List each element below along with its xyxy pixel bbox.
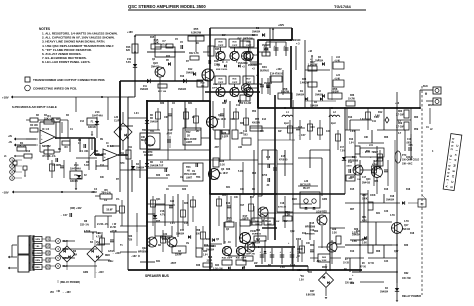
- svg-text:R42 15FP 2W: R42 15FP 2W: [241, 253, 256, 256]
- svg-text:R44 .15FP: R44 .15FP: [222, 257, 233, 260]
- svg-text:R26: R26: [184, 203, 189, 205]
- svg-text:4700: 4700: [262, 174, 268, 177]
- svg-text:.005: .005: [408, 145, 413, 147]
- svg-text:Q19: Q19: [290, 231, 295, 233]
- svg-text:MUR: MUR: [262, 221, 268, 223]
- svg-text:R12: R12: [188, 68, 193, 71]
- svg-text:+: +: [41, 137, 43, 141]
- svg-text:820: 820: [126, 49, 131, 52]
- svg-text:R30: R30: [160, 103, 165, 105]
- svg-text:C11: C11: [372, 121, 377, 123]
- svg-text:8. LE1–LE6 FRONT PANEL LED’S.: 8. LE1–LE6 FRONT PANEL LED’S.: [42, 60, 91, 64]
- svg-text:100K: 100K: [322, 260, 327, 262]
- svg-text:+18V: +18V: [127, 31, 133, 34]
- svg-text:10·2W: 10·2W: [348, 99, 356, 101]
- svg-text:D18: D18: [390, 196, 395, 198]
- svg-text:2K: 2K: [196, 131, 199, 133]
- svg-text:R25: R25: [156, 221, 161, 223]
- svg-text:1.04: 1.04: [134, 112, 139, 115]
- svg-text:1N4934: 1N4934: [315, 60, 324, 63]
- svg-text:4K: 4K: [187, 170, 190, 173]
- svg-text:COLD: COLD: [406, 157, 413, 159]
- svg-text:× 3: × 3: [296, 43, 300, 46]
- svg-text:.15FP: .15FP: [170, 263, 177, 265]
- svg-text:.003: .003: [310, 127, 315, 129]
- svg-text:C14: C14: [184, 222, 189, 225]
- svg-text:R33: R33: [222, 103, 227, 105]
- svg-text:TRANSFORMER AND OUTPUT CONNECT: TRANSFORMER AND OUTPUT CONNECTOR PINS: [33, 78, 105, 82]
- svg-text:2N4410: 2N4410: [362, 182, 371, 185]
- svg-text:1%: 1%: [96, 245, 99, 247]
- svg-text:10K∼90C: 10K∼90C: [402, 164, 413, 166]
- svg-text:Q→16: Q→16: [224, 242, 231, 244]
- svg-text:R17: R17: [240, 205, 245, 207]
- svg-text:VIO: VIO: [50, 292, 54, 294]
- svg-text:10/2W: 10/2W: [331, 89, 339, 93]
- svg-text:47-50: 47-50: [360, 266, 367, 269]
- svg-text:6.2K/5W: 6.2K/5W: [191, 31, 202, 35]
- svg-text:R20: R20: [182, 189, 187, 191]
- svg-text:R31: R31: [188, 103, 193, 105]
- svg-text:21.5K: 21.5K: [110, 227, 116, 229]
- svg-text:R60: R60: [398, 111, 403, 113]
- svg-text:1N4934: 1N4934: [310, 105, 319, 108]
- svg-text:.0018: .0018: [91, 192, 97, 194]
- svg-text:D18: D18: [406, 189, 411, 191]
- svg-text:2SA6609: 2SA6609: [248, 64, 258, 67]
- svg-text:D13: D13: [350, 251, 355, 253]
- svg-text:2.4K/2W: 2.4K/2W: [300, 82, 310, 85]
- svg-text:R27: R27: [310, 290, 315, 293]
- svg-text:6-PIN MODULAR INPUT CABLE: 6-PIN MODULAR INPUT CABLE: [12, 105, 57, 109]
- svg-text:1N4934: 1N4934: [380, 291, 389, 294]
- svg-text:10K-1%: 10K-1%: [17, 143, 27, 147]
- svg-text:1.04: 1.04: [350, 130, 355, 133]
- svg-text:3.7-2W: 3.7-2W: [396, 127, 404, 129]
- svg-text:450/3W: 450/3W: [252, 122, 261, 125]
- svg-text:8.8K/1W: 8.8K/1W: [306, 295, 316, 297]
- svg-text:100K: 100K: [362, 199, 368, 201]
- svg-text:R49: R49: [264, 48, 269, 51]
- svg-text:−82V: −82V: [296, 269, 302, 272]
- svg-text:R63: R63: [256, 230, 261, 232]
- svg-text:5.6/2W: 5.6/2W: [281, 89, 290, 93]
- svg-text:LIM: LIM: [238, 147, 242, 149]
- svg-text:PILOT: PILOT: [303, 188, 310, 190]
- svg-text:R32: R32: [404, 272, 409, 275]
- svg-text:R48: R48: [302, 78, 307, 81]
- svg-text:4.7UF: 4.7UF: [157, 165, 164, 168]
- svg-text:C20: C20: [170, 201, 175, 203]
- svg-text:CONNECTING WIRES ON PCB.: CONNECTING WIRES ON PCB.: [33, 87, 77, 91]
- svg-text:R21: R21: [362, 216, 367, 219]
- svg-text:R36: R36: [350, 95, 355, 97]
- svg-text:D14: D14: [302, 232, 307, 235]
- svg-text:LIMIT: LIMIT: [186, 142, 193, 144]
- svg-text:MPS8599: MPS8599: [348, 161, 359, 163]
- svg-text:R55: R55: [194, 27, 199, 31]
- svg-text:R24: R24: [215, 264, 220, 267]
- svg-text:2μH: 2μH: [331, 122, 336, 125]
- svg-text:+IN: +IN: [8, 135, 12, 138]
- svg-text:TG/17/84: TG/17/84: [334, 4, 351, 9]
- svg-text:← L01: ← L01: [366, 145, 374, 147]
- svg-text:E14: E14: [262, 118, 267, 121]
- svg-text:+82V: +82V: [278, 23, 284, 27]
- svg-text:Q20: Q20: [366, 179, 371, 181]
- svg-text:R66: R66: [384, 137, 389, 139]
- svg-text:R57 100: R57 100: [158, 91, 167, 93]
- svg-text:R20: R20: [362, 194, 367, 197]
- svg-text:R28: R28: [226, 169, 231, 171]
- svg-text:DD1: DD1: [262, 66, 267, 69]
- svg-text:R52: R52: [255, 119, 260, 121]
- svg-text:IC 1:2: IC 1:2: [42, 127, 50, 131]
- svg-text:R22 4.7K: R22 4.7K: [189, 52, 199, 55]
- svg-text:1.04/2W: 1.04/2W: [308, 62, 318, 66]
- svg-text:1.5A: 1.5A: [280, 266, 285, 269]
- svg-text:R23: R23: [128, 236, 133, 238]
- svg-text:R68: R68: [376, 251, 381, 253]
- svg-text:D10: D10: [226, 203, 231, 205]
- svg-text:GRN: GRN: [322, 199, 327, 201]
- svg-text:1N4934: 1N4934: [178, 88, 187, 91]
- svg-text:R13: R13: [348, 117, 353, 119]
- svg-text:CLIP: CLIP: [114, 120, 120, 123]
- svg-text:21.5K−1%: 21.5K−1%: [97, 223, 109, 226]
- svg-text:C23: C23: [384, 211, 389, 213]
- svg-text:QSC STEREO AMPLIFIER MODEL 350: QSC STEREO AMPLIFIER MODEL 3500: [128, 4, 206, 9]
- svg-text:1N4934: 1N4934: [150, 121, 159, 124]
- svg-text:3.3K: 3.3K: [332, 233, 337, 235]
- svg-text:1N: 1N: [186, 243, 189, 245]
- svg-text:R10: R10: [26, 151, 31, 153]
- svg-text:RED: RED: [105, 255, 110, 257]
- svg-text:220PF: 220PF: [175, 255, 182, 257]
- svg-text:R23: R23: [156, 175, 161, 177]
- svg-text:R59: R59: [414, 129, 419, 131]
- svg-text:3300: 3300: [296, 239, 302, 241]
- svg-text:WHT: WHT: [428, 104, 434, 107]
- svg-text:8599: 8599: [162, 239, 168, 241]
- svg-text:NOTES: NOTES: [39, 27, 50, 31]
- svg-text:.15FP: .15FP: [218, 45, 224, 47]
- svg-text:SPEAKER BUS: SPEAKER BUS: [145, 274, 170, 278]
- svg-text:330/1B: 330/1B: [88, 126, 96, 129]
- svg-text:R65: R65: [374, 181, 379, 183]
- svg-text:R52: R52: [252, 111, 257, 113]
- svg-text:RED: RED: [35, 267, 40, 269]
- svg-text:Q17: Q17: [394, 251, 399, 253]
- svg-text:1N4934: 1N4934: [252, 31, 261, 34]
- svg-text:D15: D15: [350, 189, 355, 191]
- svg-text:R11: R11: [128, 147, 133, 149]
- svg-text:R2 10K: R2 10K: [30, 125, 38, 127]
- svg-text:−IN: −IN: [8, 141, 12, 144]
- svg-text:BIAS: BIAS: [141, 139, 147, 142]
- svg-text:1N4934: 1N4934: [296, 94, 305, 97]
- svg-text:YEL: YEL: [35, 246, 40, 248]
- svg-text:R5 10K−1%: R5 10K−1%: [43, 155, 57, 158]
- svg-text:R64: R64: [350, 176, 355, 179]
- svg-text:R40 .15FP 2W: R40 .15FP 2W: [237, 38, 253, 41]
- svg-text:C13: C13: [298, 127, 303, 129]
- svg-text:-82V: -82V: [316, 261, 321, 263]
- svg-text:4.7K: 4.7K: [404, 220, 409, 223]
- svg-text:IC 1:8: IC 1:8: [107, 145, 114, 148]
- svg-text:→ C47: → C47: [60, 214, 68, 217]
- svg-text:120V: 120V: [108, 251, 114, 253]
- svg-text:R15: R15: [150, 37, 155, 39]
- svg-text:.15FP: .15FP: [232, 82, 238, 84]
- svg-text:.15FP: .15FP: [218, 82, 224, 84]
- svg-text:18.9F: 18.9F: [106, 209, 113, 212]
- svg-text:R13: R13: [349, 139, 354, 141]
- svg-text:BURN-D: BURN-D: [260, 71, 269, 73]
- svg-text:R46: R46: [196, 264, 201, 267]
- svg-text:15031: 15031: [250, 231, 257, 233]
- svg-text:D16: D16: [384, 189, 389, 191]
- svg-text:25A: 25A: [96, 241, 101, 244]
- svg-text:D18: D18: [410, 233, 415, 235]
- svg-text:10K: 10K: [364, 137, 369, 139]
- svg-text:R30: R30: [404, 245, 409, 247]
- svg-text:(RELAY POWER): (RELAY POWER): [60, 281, 80, 284]
- svg-text:1N4934: 1N4934: [315, 94, 324, 97]
- svg-text:R69: R69: [350, 283, 355, 285]
- svg-text:C15: C15: [310, 223, 315, 225]
- svg-text:POS-CURR: POS-CURR: [184, 174, 197, 176]
- svg-text:.3FP: .3FP: [214, 147, 219, 149]
- svg-text:GRN: GRN: [83, 272, 88, 274]
- svg-text:4700-50: 4700-50: [278, 206, 287, 209]
- svg-text:2K: 2K: [187, 135, 190, 138]
- svg-text:+: +: [104, 155, 106, 159]
- svg-text:1N4744A: 1N4744A: [70, 167, 81, 171]
- svg-text:R62: R62: [314, 231, 319, 233]
- svg-text:2N4410: 2N4410: [402, 228, 411, 231]
- svg-text:R41: R41: [156, 260, 161, 263]
- svg-text:TR1: TR1: [150, 131, 155, 133]
- svg-text:R14 NTC: R14 NTC: [143, 151, 153, 154]
- svg-text:.15FP: .15FP: [232, 45, 238, 47]
- svg-text:5.6V: 5.6V: [126, 61, 131, 64]
- svg-text:C24: C24: [384, 260, 389, 263]
- svg-text:R45 .15FP: R45 .15FP: [236, 257, 247, 260]
- svg-text:R56 5.6-2W: R56 5.6-2W: [239, 103, 252, 105]
- svg-text:4.7K: 4.7K: [390, 214, 395, 217]
- svg-text:1K: 1K: [196, 43, 199, 45]
- svg-text:2μH: 2μH: [284, 122, 289, 125]
- svg-text:−18V: −18V: [131, 255, 137, 258]
- svg-text:10K: 10K: [141, 137, 146, 139]
- svg-text:R29: R29: [332, 229, 337, 231]
- svg-text:→ −48V: → −48V: [62, 291, 71, 294]
- svg-text:R21: R21: [222, 195, 227, 197]
- svg-text:3.5K: 3.5K: [352, 241, 357, 243]
- svg-text:R29: R29: [354, 229, 359, 231]
- svg-text:LIMIT: LIMIT: [186, 178, 193, 180]
- svg-text:C1 .001: C1 .001: [80, 150, 89, 153]
- svg-text:R12: R12: [378, 111, 383, 114]
- svg-text:10K: 10K: [357, 179, 361, 181]
- svg-text:BLU/WHT: BLU/WHT: [32, 253, 43, 255]
- svg-text:R13: R13: [180, 76, 185, 78]
- svg-text:R17: R17: [250, 197, 255, 199]
- svg-text:330/1B: 330/1B: [70, 180, 78, 183]
- svg-text:2.7-2W: 2.7-2W: [396, 115, 404, 117]
- svg-text:1N4744A: 1N4744A: [92, 114, 103, 118]
- svg-text:1N4934: 1N4934: [176, 233, 185, 236]
- svg-text:C18: C18: [266, 157, 271, 159]
- svg-text:C47: C47: [326, 130, 331, 133]
- svg-text:5.1K: 5.1K: [238, 171, 243, 173]
- svg-text:332−1%: 332−1%: [80, 224, 90, 227]
- svg-text:1K: 1K: [166, 189, 169, 191]
- svg-text:→ −82V: → −82V: [95, 271, 104, 274]
- svg-text:L26: L26: [304, 180, 309, 183]
- svg-text:1N4934: 1N4934: [140, 88, 149, 91]
- svg-text:47-50: 47-50: [368, 262, 375, 265]
- svg-text:R59: R59: [398, 123, 403, 125]
- svg-text:7.5V: 7.5V: [340, 151, 345, 153]
- svg-text:Q21: Q21: [156, 199, 161, 201]
- svg-text:3.5K: 3.5K: [362, 243, 367, 245]
- svg-text:1.04: 1.04: [170, 222, 175, 225]
- svg-text:1.04: 1.04: [360, 118, 365, 121]
- svg-text:Z14: Z14: [74, 163, 79, 167]
- svg-text:MOV: MOV: [322, 267, 328, 269]
- svg-text:100K: 100K: [370, 195, 376, 197]
- svg-text:2N4410: 2N4410: [151, 66, 160, 69]
- svg-text:100: 100: [227, 218, 232, 222]
- svg-text:C18: C18: [280, 203, 285, 205]
- svg-text:↔: ↔: [30, 158, 32, 161]
- svg-text:65C: 65C: [366, 151, 371, 153]
- svg-text:R28: R28: [220, 161, 225, 163]
- svg-text:−18V: −18V: [2, 191, 9, 195]
- svg-text:R20: R20: [128, 240, 133, 242]
- svg-text:23PF: 23PF: [212, 88, 218, 90]
- svg-text:3300: 3300: [290, 265, 296, 267]
- svg-text:4.7UF: 4.7UF: [84, 230, 91, 233]
- svg-text:.0018: .0018: [346, 166, 352, 168]
- svg-text:E14 4700-50: E14 4700-50: [270, 73, 284, 76]
- svg-text:10K: 10K: [164, 117, 169, 119]
- svg-text:1.5A: 1.5A: [299, 279, 304, 282]
- svg-text:TR3: TR3: [196, 177, 201, 179]
- svg-text:RELAY POWER: RELAY POWER: [402, 294, 421, 298]
- svg-text:MURB10: MURB10: [252, 234, 262, 236]
- svg-text:AL 1847: AL 1847: [219, 172, 228, 175]
- svg-text:.15FP: .15FP: [246, 45, 252, 47]
- svg-text:25A: 25A: [73, 254, 78, 257]
- svg-text:1N4934: 1N4934: [262, 44, 271, 47]
- svg-text:R22: R22: [166, 56, 171, 58]
- svg-text:(OR) +46V: (OR) +46V: [70, 207, 82, 210]
- svg-text:4700-50: 4700-50: [279, 159, 288, 162]
- svg-text:R67: R67: [350, 209, 355, 211]
- svg-text:R34: R34: [203, 250, 208, 253]
- svg-text:R60: R60: [414, 117, 419, 119]
- svg-text:.003: .003: [243, 135, 248, 137]
- svg-text:BLK: BLK: [423, 85, 428, 88]
- svg-text:ORN: ORN: [35, 260, 40, 262]
- svg-text:+46V: +46V: [276, 68, 282, 71]
- svg-text:AL 1046: AL 1046: [217, 118, 226, 121]
- svg-text:1.2K: 1.2K: [153, 40, 159, 44]
- svg-text:5.1K: 5.1K: [84, 164, 89, 167]
- svg-text:1.04: 1.04: [349, 142, 354, 145]
- svg-text:3.30V: 3.30V: [352, 233, 358, 235]
- svg-text:NEG-CURR: NEG-CURR: [184, 139, 197, 141]
- svg-text:5.1K: 5.1K: [220, 165, 225, 167]
- svg-text:R21: R21: [226, 187, 231, 189]
- svg-text:.15FP: .15FP: [266, 224, 272, 226]
- svg-text:R50: R50: [252, 173, 257, 175]
- svg-text:1%: 1%: [116, 199, 119, 201]
- svg-text:5.6K: 5.6K: [374, 117, 379, 119]
- svg-text:NE5532: NE5532: [42, 145, 51, 148]
- svg-text:GRN: GRN: [35, 239, 40, 241]
- svg-text:.47PF: .47PF: [166, 133, 173, 136]
- svg-text:R21: R21: [376, 213, 381, 215]
- svg-text:C17: C17: [362, 177, 367, 179]
- svg-text:BIAS: BIAS: [148, 144, 154, 147]
- svg-text:40 OHM: 40 OHM: [144, 154, 153, 157]
- svg-text:1N4934: 1N4934: [386, 199, 395, 202]
- svg-text:4.7V: 4.7V: [160, 214, 165, 217]
- svg-text:784−1%: 784−1%: [101, 190, 111, 194]
- svg-text:NTC: NTC: [120, 163, 125, 165]
- svg-text:.15FP: .15FP: [254, 224, 260, 226]
- svg-text:0.3FP: 0.3FP: [222, 137, 229, 139]
- svg-text:C13: C13: [243, 131, 248, 133]
- svg-text:+18V: +18V: [2, 96, 9, 100]
- svg-text:O→4: O→4: [222, 61, 228, 64]
- svg-text:MJE 15030: MJE 15030: [216, 69, 228, 71]
- svg-text:C12: C12: [236, 105, 241, 107]
- svg-text:.02FP: .02FP: [242, 216, 249, 220]
- svg-text:10-35: 10-35: [343, 263, 350, 265]
- svg-text:→ C47: → C47: [298, 134, 306, 137]
- svg-text:Z13: Z13: [95, 110, 100, 114]
- svg-text:60Hz: 60Hz: [108, 261, 114, 263]
- svg-text:3.3K: 3.3K: [285, 212, 291, 216]
- svg-text:Q17: Q17: [404, 225, 409, 227]
- svg-text:2SA6609: 2SA6609: [238, 62, 248, 65]
